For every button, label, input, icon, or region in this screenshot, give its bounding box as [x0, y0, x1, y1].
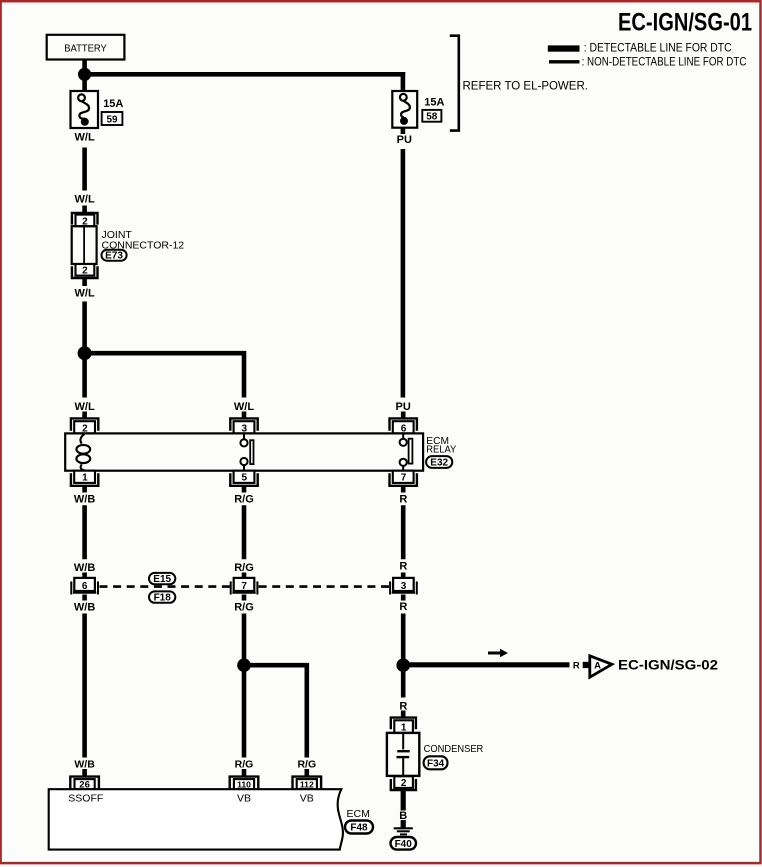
svg-text:7: 7	[401, 473, 407, 484]
fuse 59 number box	[102, 112, 123, 125]
ground code F40 oval	[391, 837, 417, 850]
wire R drop to condenser	[401, 614, 406, 698]
wire battery feed horizontal	[85, 72, 406, 77]
svg-text:1: 1	[82, 473, 88, 484]
svg-text:R/G: R/G	[234, 602, 254, 614]
battery box	[47, 35, 125, 60]
wire W/B mid segment	[82, 505, 87, 559]
svg-text:58: 58	[426, 112, 438, 123]
label R at page link	[573, 661, 580, 672]
relay coil	[76, 434, 90, 471]
svg-text:EC-IGN/SG-01: EC-IGN/SG-01	[618, 9, 752, 37]
svg-text:EC-IGN/SG-02: EC-IGN/SG-02	[618, 657, 718, 673]
relay name	[426, 436, 456, 456]
label R above box 3	[399, 561, 407, 573]
fuse 58	[392, 91, 417, 128]
wire stub into condenser	[401, 711, 406, 718]
wire dashed harness 7 to 3	[259, 585, 390, 588]
wire R/G branch to pin 112	[244, 665, 307, 757]
svg-text:6: 6	[82, 581, 88, 592]
ECM pin 26	[70, 777, 99, 791]
svg-text:3: 3	[401, 581, 407, 592]
wire R to EC-IGN/SG-02	[403, 662, 569, 667]
label W/L above relay pin 2	[75, 401, 95, 413]
joint connector name	[102, 229, 185, 252]
label W/L below joint connector	[75, 287, 95, 299]
relay pin 5	[230, 471, 257, 486]
svg-text:ECM: ECM	[347, 808, 370, 820]
label R/G above ECM pin 110	[235, 759, 254, 771]
svg-text:F18: F18	[154, 593, 172, 604]
wire dashed harness 6 to 7	[100, 585, 231, 588]
wire drop to fuse 58	[401, 72, 406, 92]
wire stubs below relay	[85, 486, 404, 493]
svg-text:F48: F48	[350, 823, 368, 834]
svg-text:PU: PU	[396, 401, 411, 413]
label R/G above box 7	[234, 562, 254, 574]
label R below box 3	[399, 601, 407, 613]
fuse 58 value 15A	[424, 97, 444, 109]
svg-text:REFER TO EL-POWER.: REFER TO EL-POWER.	[463, 81, 588, 93]
page link triangle A	[590, 656, 612, 677]
relay pin 7	[390, 471, 417, 486]
svg-text:R: R	[399, 601, 407, 613]
svg-text:W/L: W/L	[75, 287, 95, 299]
ECM name	[347, 808, 370, 820]
wire stubs into ECM pins	[85, 769, 307, 777]
label PU below fuse 58	[397, 134, 412, 146]
relay contact pins 3-5	[240, 433, 253, 470]
svg-text:W/L: W/L	[75, 132, 95, 144]
node junction dot R/G	[237, 658, 251, 672]
node junction dot R	[396, 658, 410, 672]
relay pin 6	[390, 418, 417, 434]
ECM terminal name VB 112	[300, 793, 314, 805]
label W/L above relay pin 3	[234, 401, 254, 413]
wire stub below joint connector	[82, 279, 87, 286]
wire stubs below inline boxes	[85, 595, 404, 601]
ECM code F48 oval	[345, 821, 373, 834]
svg-text:112: 112	[300, 779, 314, 789]
svg-text:A: A	[594, 660, 601, 671]
node junction dot W/L	[78, 346, 92, 360]
ECM pin 110	[230, 777, 259, 790]
svg-text:R/G: R/G	[235, 759, 254, 771]
svg-text:59: 59	[106, 114, 118, 125]
svg-text:2: 2	[82, 266, 88, 277]
wire stub into joint connector	[82, 206, 87, 213]
label W/L above joint connector	[75, 194, 95, 206]
svg-text:VB: VB	[300, 793, 314, 805]
svg-text:1: 1	[401, 722, 407, 733]
connector code F18 oval	[149, 591, 175, 603]
label W/L below fuse 59	[75, 132, 95, 144]
legend non-detectable thin bar	[549, 60, 580, 63]
inline connector box 7	[231, 578, 258, 595]
connector code E15 oval	[149, 573, 175, 585]
refer to el-power text	[463, 81, 588, 93]
svg-text:W/B: W/B	[74, 493, 95, 505]
flow arrow	[488, 649, 508, 657]
svg-text:5: 5	[242, 473, 248, 484]
title EC-IGN/SG-01	[618, 9, 752, 37]
legend non-detectable text	[582, 57, 747, 69]
svg-text:PU: PU	[397, 134, 412, 146]
wire R/G mid segment	[242, 505, 247, 559]
wire condenser to ground	[401, 790, 406, 810]
svg-text:W/L: W/L	[234, 401, 254, 413]
label R/G below relay pin 5	[234, 493, 254, 505]
label R/G above ECM pin 112	[297, 759, 316, 771]
wire branch to relay pin 3	[85, 353, 244, 397]
wire battery stub	[82, 60, 87, 71]
relay pin 1	[71, 471, 98, 486]
joint connector bottom pin 2	[72, 264, 98, 278]
label R below relay pin 7	[399, 493, 407, 505]
condenser name	[424, 743, 484, 755]
wire R/G drop through junction	[242, 614, 247, 758]
ground symbol	[394, 828, 413, 834]
wire stubs into inline boxes	[85, 573, 404, 579]
condenser pin 1	[391, 718, 416, 734]
node connector square	[583, 662, 589, 668]
relay contact pins 6-7	[400, 433, 413, 470]
legend detectable text	[584, 43, 732, 55]
svg-text:RELAY: RELAY	[426, 445, 456, 456]
svg-text:W/B: W/B	[74, 562, 95, 574]
svg-text:R/G: R/G	[234, 493, 254, 505]
wire PU long drop	[401, 128, 406, 398]
svg-text:R: R	[399, 493, 407, 505]
wire W/B long drop to ECM	[82, 614, 87, 758]
svg-text:110: 110	[237, 779, 251, 789]
svg-text:F40: F40	[395, 839, 413, 850]
inline connector box 6	[71, 578, 98, 595]
fuse 59	[71, 91, 99, 128]
fuse 59 value 15A	[103, 98, 123, 110]
wire dot to fuse 59	[82, 74, 87, 91]
inline connector box 3	[390, 578, 417, 595]
svg-text:W/B: W/B	[74, 602, 95, 614]
ground stub	[401, 820, 406, 828]
condenser pin 2	[391, 776, 416, 790]
label PU above relay pin 6	[396, 401, 411, 413]
condenser body	[387, 733, 419, 776]
svg-text:W/L: W/L	[75, 194, 95, 206]
refer bracket	[450, 36, 459, 131]
legend detectable thick bar	[548, 45, 580, 51]
svg-text:: NON-DETECTABLE LINE FOR DTC: : NON-DETECTABLE LINE FOR DTC	[582, 57, 747, 69]
svg-text:2: 2	[401, 778, 407, 789]
svg-text:F34: F34	[427, 758, 445, 769]
svg-text:: DETECTABLE LINE FOR DTC: : DETECTABLE LINE FOR DTC	[584, 43, 732, 55]
svg-text:R: R	[399, 561, 407, 573]
label B	[399, 810, 407, 822]
svg-text:CONDENSER: CONDENSER	[424, 743, 484, 755]
relay pin 2	[71, 418, 98, 434]
node battery junction dot	[78, 68, 91, 81]
joint connector body	[72, 226, 97, 264]
svg-text:E32: E32	[430, 458, 448, 469]
label W/B above ECM pin 26	[74, 759, 95, 771]
svg-text:BATTERY: BATTERY	[64, 42, 107, 54]
svg-text:SSOFF: SSOFF	[68, 792, 103, 804]
wire R mid segment	[401, 505, 406, 559]
svg-text:W/B: W/B	[74, 759, 95, 771]
label W/B below box 6	[74, 602, 95, 614]
wire W/L segment	[82, 148, 87, 191]
relay code E32 oval	[426, 456, 452, 468]
label R above condenser	[399, 700, 407, 712]
ECM terminal name VB 110	[237, 793, 251, 805]
label W/B below relay pin 1	[74, 493, 95, 505]
joint connector top pin 2	[72, 213, 98, 228]
ECM box with torn edge	[49, 789, 343, 849]
label EC-IGN/SG-02	[618, 657, 718, 673]
wire W/L down through junction	[82, 302, 87, 398]
svg-text:E15: E15	[153, 574, 171, 585]
svg-text:VB: VB	[237, 793, 251, 805]
relay pin 3	[230, 418, 257, 434]
svg-text:7: 7	[241, 581, 247, 592]
ECM pin 112	[293, 777, 322, 790]
svg-text:W/L: W/L	[75, 401, 95, 413]
connector code E73 oval	[102, 250, 127, 262]
svg-text:R: R	[573, 661, 580, 672]
label R/G below box 7	[234, 602, 254, 614]
svg-text:R/G: R/G	[234, 562, 254, 574]
relay body ECM RELAY	[65, 433, 423, 470]
svg-text:15A: 15A	[424, 97, 444, 109]
wire stubs into relay pins	[85, 412, 404, 419]
condenser code F34 oval	[424, 756, 448, 769]
ECM terminal name SSOFF	[68, 792, 103, 804]
fuse 58 number box	[422, 110, 441, 123]
svg-text:R/G: R/G	[297, 759, 316, 771]
label W/B above box 6	[74, 562, 95, 574]
svg-text:E73: E73	[105, 251, 123, 262]
svg-text:15A: 15A	[103, 98, 123, 110]
